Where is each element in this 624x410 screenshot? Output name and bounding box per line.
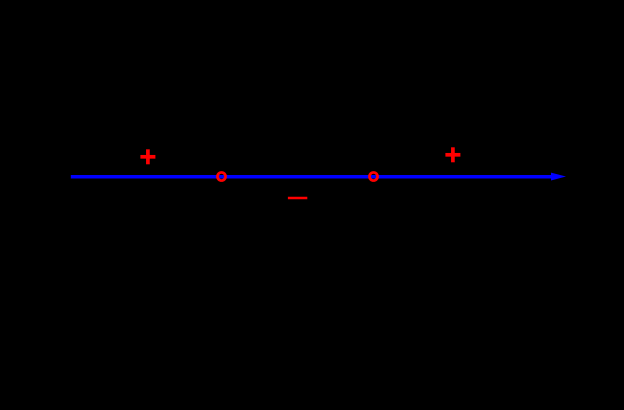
open circle (right boundary point) xyxy=(369,172,377,180)
number line (blue axis) xyxy=(71,175,552,179)
plus sign (left interval, positive region) xyxy=(140,149,155,164)
plus sign (right interval, positive region) xyxy=(445,147,460,162)
arrowhead (right end of number line) xyxy=(551,173,566,181)
minus sign (middle interval, negative region) xyxy=(288,197,307,199)
open circle (left boundary point) xyxy=(217,172,225,180)
